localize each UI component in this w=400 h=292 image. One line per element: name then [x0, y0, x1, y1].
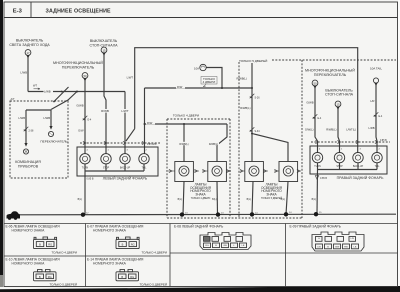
wire: right tail drop — [376, 84, 377, 153]
svg-text:ВЫКЛЮЧАТЕЛЬ: ВЫКЛЮЧАТЕЛЬ — [16, 38, 44, 42]
svg-text:RG: RG — [130, 275, 134, 279]
svg-text:S-34: S-34 — [255, 130, 261, 133]
wire: lamp D ground — [286, 182, 288, 215]
svg-text:RG: RG — [48, 275, 52, 279]
svg-text:17: 17 — [26, 51, 30, 55]
wire: reverse horizontal run — [28, 91, 125, 93]
connector slash S-26 — [250, 94, 255, 99]
ground dots on rail — [81, 213, 85, 217]
svg-text:E-08 ЛЕВЫЙ ЗАДНИЙ ФОНАРЬ: E-08 ЛЕВЫЙ ЗАДНИЙ ФОНАРЬ — [174, 224, 223, 228]
harness ticks right lamp — [315, 140, 318, 143]
left rear lamp assembly — [77, 147, 158, 176]
svg-text:R/W: R/W — [177, 85, 183, 89]
svg-text:50: 50 — [83, 74, 87, 78]
svg-text:BACK-UP: BACK-UP — [120, 166, 131, 169]
wire: lamp B drop — [217, 124, 227, 162]
svg-text:G/WB: G/WB — [76, 103, 83, 107]
svg-text:ТОЛЬКО 5 ДВЕРЕЙ: ТОЛЬКО 5 ДВЕРЕЙ — [49, 283, 77, 287]
junction dot: cluster branch — [76, 91, 78, 93]
junction dot: tail to 5-door feed — [251, 87, 253, 89]
svg-text:R/WB(L): R/WB(L) — [237, 76, 247, 80]
svg-text:L/B: L/B — [351, 238, 355, 240]
wire label L/WB on run — [44, 89, 54, 93]
svg-text:ТОЛЬКО 5 ДВЕРЕЙ: ТОЛЬКО 5 ДВЕРЕЙ — [139, 283, 167, 287]
svg-text:НОМЕРНОГО ЗНАКА: НОМЕРНОГО ЗНАКА — [93, 228, 127, 232]
svg-text:10A: 10A — [194, 66, 199, 70]
svg-text:0.85 B: 0.85 B — [380, 140, 387, 142]
dashed boundaries — [10, 60, 396, 218]
svg-text:B(L): B(L) — [247, 199, 252, 201]
wire: lamp C ground — [252, 182, 253, 215]
connector slash E-4 — [83, 116, 88, 121]
connector circle: stop lamp switch 15 — [101, 47, 107, 56]
svg-text:R/WB: R/WB — [101, 109, 109, 113]
wire: reverse switch drop — [27, 56, 29, 92]
arrow into cluster — [24, 143, 27, 147]
connector circle: multifunction switch 50 — [82, 73, 88, 82]
right section: multifunction switch 50 — [312, 80, 318, 89]
wire: left multifunction turn drop — [84, 79, 86, 154]
svg-text:E-4: E-4 — [88, 119, 92, 122]
wire: left tail drop — [144, 88, 146, 154]
svg-text:L/B: L/B — [317, 246, 321, 248]
svg-text:ЗНАКА: ЗНАКА — [195, 192, 206, 196]
svg-text:L/WB: L/WB — [44, 89, 51, 93]
svg-text:0.85 B: 0.85 B — [320, 177, 327, 180]
dashed harness line left — [80, 142, 160, 144]
svg-text:B: B — [39, 243, 41, 247]
connector E-10 — [34, 270, 57, 281]
svg-text:ТОЛЬКО 5 ДВЕРЕЙ: ТОЛЬКО 5 ДВЕРЕЙ — [261, 197, 282, 200]
wire: lamp B ground — [216, 182, 219, 215]
connector E-09 shell — [312, 232, 364, 251]
svg-text:B: B — [39, 275, 41, 279]
dashed box: 4-door licence lamps — [167, 119, 230, 218]
svg-text:ТОЛЬКО 4 ДВЕРИ: ТОЛЬКО 4 ДВЕРИ — [191, 198, 211, 200]
right rear lamp assembly — [310, 146, 387, 174]
svg-text:R/WB(L): R/WB(L) — [209, 143, 218, 146]
wire label R/WB — [101, 109, 111, 113]
svg-text:B(L): B(L) — [212, 199, 217, 201]
multifunction switch lever — [54, 87, 69, 102]
svg-text:НОМЕРНОГО ЗНАКА: НОМЕРНОГО ЗНАКА — [12, 261, 46, 265]
junction dot: lever contact — [61, 91, 63, 93]
svg-text:E-4: E-4 — [379, 115, 383, 118]
svg-text:ТОЛЬКО 5 ДВЕРЕЙ: ТОЛЬКО 5 ДВЕРЕЙ — [239, 59, 267, 63]
wire: left back-up bulb drop — [124, 92, 126, 155]
harness ticks left lamp — [83, 141, 86, 144]
svg-text:R/WB(L): R/WB(L) — [179, 143, 188, 146]
svg-text:4 ДВЕРИ: 4 ДВЕРИ — [203, 80, 216, 84]
svg-text:B(L): B(L) — [312, 199, 317, 201]
svg-text:G/WB: G/WB — [306, 101, 313, 105]
scan black bar left — [0, 0, 3, 280]
svg-text:ЗНАКА: ЗНАКА — [266, 192, 277, 196]
licence lamp A — [175, 162, 194, 182]
wire: right lamp internal bus — [318, 163, 378, 170]
ground rail — [16, 213, 396, 216]
wire: right stop drop — [338, 108, 340, 154]
svg-text:0.85 R/W: 0.85 R/W — [147, 144, 157, 146]
wire: lamp A ground — [183, 182, 184, 215]
connector slash S-34 — [250, 127, 255, 132]
table column lines — [85, 224, 87, 287]
svg-text:15: 15 — [336, 102, 340, 106]
wire label R/W on tail run — [176, 85, 185, 88]
wire labels on lamp feeds — [179, 142, 190, 145]
wire: left lamp ground drop — [84, 171, 86, 215]
svg-text:B: B — [122, 243, 124, 247]
svg-text:ЗАДНИЕЕ ОСВЕЩЕНИЕ: ЗАДНИЕЕ ОСВЕЩЕНИЕ — [46, 9, 112, 15]
svg-text:B: B — [121, 275, 123, 279]
svg-text:RG: RG — [205, 245, 209, 247]
ground connector triangle right lamp — [315, 176, 319, 180]
connector E-08 shell — [200, 233, 251, 250]
scan black bar bottom — [0, 286, 400, 292]
svg-text:BACK-UP: BACK-UP — [353, 165, 364, 168]
svg-text:ТОЛЬКО 4 ДВЕРИ: ТОЛЬКО 4 ДВЕРИ — [141, 250, 167, 254]
svg-text:TAIL: TAIL — [142, 166, 147, 169]
junction dot: lamp CD branch — [251, 133, 253, 135]
wire: licence lamp feed run — [145, 123, 228, 125]
fuse: tail 10A — [200, 64, 206, 70]
svg-text:НОМЕРНОГО ЗНАКА: НОМЕРНОГО ЗНАКА — [12, 228, 46, 232]
svg-text:НОМЕРНОГО ЗНАКА: НОМЕРНОГО ЗНАКА — [93, 261, 127, 265]
svg-text:L/WT: L/WT — [127, 76, 134, 80]
svg-text:ТОЛЬКО 4 ДВЕРИ: ТОЛЬКО 4 ДВЕРИ — [51, 250, 77, 254]
wire: 5-door licence feed — [251, 63, 253, 162]
table top line — [4, 223, 398, 225]
wire: branch into instrument cluster — [51, 92, 77, 110]
svg-text:L/WB: L/WB — [20, 70, 27, 74]
wire: back-up cross link top loop — [135, 48, 358, 153]
wire: lamp A drop — [183, 124, 185, 162]
svg-text:L/WT: L/WT — [121, 109, 128, 113]
svg-text:L/R: L/R — [370, 99, 374, 103]
svg-text:R/WB(L): R/WB(L) — [326, 128, 336, 132]
svg-text:G: G — [318, 238, 320, 240]
svg-text:L/WT(L): L/WT(L) — [346, 128, 356, 132]
wire: right multifunction turn drop — [315, 87, 318, 154]
svg-text:G/W(L): G/W(L) — [305, 128, 314, 132]
svg-text:RG: RG — [48, 243, 52, 247]
svg-text:STOP: STOP — [336, 166, 343, 168]
svg-text:WT: WT — [33, 84, 37, 88]
svg-text:СВЕТА ЗАДНЕГО ХОДА: СВЕТА ЗАДНЕГО ХОДА — [9, 43, 50, 47]
side stubs with chevrons lamps — [168, 170, 301, 172]
svg-text:ПЕРЕКЛЮЧАТЕЛЬ: ПЕРЕКЛЮЧАТЕЛЬ — [62, 66, 95, 70]
connector slash 2-38 — [24, 127, 29, 132]
dashed region: 5-door only — [167, 60, 396, 218]
svg-text:L/WB: L/WB — [18, 116, 25, 120]
svg-text:L/RB: L/RB — [369, 126, 375, 130]
svg-text:2-38: 2-38 — [29, 130, 34, 133]
licence lamp D — [279, 162, 298, 182]
connector E-06 — [34, 237, 57, 249]
svg-text:МНОГОФУНКЦИОНАЛЬНЫЙ: МНОГОФУНКЦИОНАЛЬНЫЙ — [53, 61, 103, 65]
svg-text:E-3: E-3 — [13, 9, 23, 15]
licence lamp C — [245, 162, 264, 182]
table row lines — [4, 255, 170, 257]
svg-text:S-26: S-26 — [255, 97, 261, 100]
wire: loop to node — [126, 129, 135, 141]
svg-text:E-4: E-4 — [318, 117, 322, 120]
connector circle: cluster back-up indicator — [23, 149, 28, 154]
svg-text:0.85 B: 0.85 B — [87, 178, 94, 181]
dashed box: instrument cluster A/T — [10, 101, 68, 178]
svg-text:E-09 ПРАВЫЙ ЗАДНИЙ ФОНАРЬ: E-09 ПРАВЫЙ ЗАДНИЙ ФОНАРЬ — [290, 224, 341, 228]
svg-text:L/WB: L/WB — [43, 116, 50, 120]
svg-text:B(L): B(L) — [281, 199, 286, 201]
svg-text:СТОП-СИГНАЛА: СТОП-СИГНАЛА — [325, 93, 354, 97]
svg-text:B(L): B(L) — [178, 199, 183, 201]
connector circle: reverse light switch 17 — [25, 50, 31, 59]
svg-text:B(L): B(L) — [78, 199, 83, 201]
junction dot: tail branch — [144, 123, 146, 125]
svg-text:50: 50 — [313, 81, 317, 85]
car icon — [7, 211, 21, 218]
svg-text:СТОП-СИГНАЛА: СТОП-СИГНАЛА — [89, 44, 118, 48]
svg-text:A/T: A/T — [11, 97, 15, 101]
wire: left stop switch drop — [104, 54, 106, 155]
wire: cluster bus — [26, 110, 51, 143]
svg-text:ТОЛЬКО 4 ДВЕРИ: ТОЛЬКО 4 ДВЕРИ — [173, 114, 199, 118]
svg-text:15: 15 — [102, 48, 106, 52]
junction dot: lamp A branch — [183, 123, 185, 125]
dashed harness line right — [311, 141, 390, 143]
wire: left lamp internal bus — [85, 164, 144, 171]
wire label R/W on licence run — [146, 121, 155, 124]
connector E-14 — [116, 270, 139, 281]
svg-text:TURN: TURN — [82, 167, 89, 169]
wire: right lamp ground drop — [316, 170, 319, 215]
svg-text:ПРИБОРОВ: ПРИБОРОВ — [18, 164, 39, 168]
header bar — [4, 17, 398, 19]
svg-text:ВЫКЛЮЧАТЕЛЬ: ВЫКЛЮЧАТЕЛЬ — [90, 39, 118, 43]
svg-text:10A TAIL: 10A TAIL — [370, 66, 382, 70]
svg-text:TAIL: TAIL — [375, 165, 380, 168]
svg-text:G/W: G/W — [78, 128, 84, 132]
right section: stop lamp switch 15 — [335, 101, 341, 110]
wire label L/WT — [120, 109, 130, 113]
connector circle: switch in cluster — [48, 131, 53, 136]
connector E-07 — [116, 237, 139, 249]
svg-text:ЛЕВЫЙ ЗАДНИЙ ФОНАРЬ: ЛЕВЫЙ ЗАДНИЙ ФОНАРЬ — [103, 177, 148, 181]
svg-text:ПРАВЫЙ ЗАДНИЙ ФОНАРЬ: ПРАВЫЙ ЗАДНИЙ ФОНАРЬ — [337, 176, 385, 180]
svg-text:R/W: R/W — [147, 121, 153, 125]
svg-text:ПЕРЕКЛЮЧАТЕЛЬ: ПЕРЕКЛЮЧАТЕЛЬ — [40, 140, 67, 144]
wire: lamp D diagonal feed — [252, 134, 288, 162]
svg-text:R/WB(L): R/WB(L) — [240, 106, 250, 110]
licence lamp B — [208, 162, 227, 182]
svg-text:TURN: TURN — [314, 166, 321, 168]
wire: fuse to tail feed — [206, 68, 222, 89]
svg-text:ПЕРЕКЛЮЧАТЕЛЬ: ПЕРЕКЛЮЧАТЕЛЬ — [314, 73, 347, 77]
svg-text:RG: RG — [131, 243, 135, 247]
arrow into switch — [49, 126, 52, 130]
wire: tail horizontal run — [145, 87, 253, 89]
svg-text:STOP: STOP — [103, 167, 110, 169]
label box: 4-door only near fuse — [201, 77, 217, 85]
junction dot: fuse node — [221, 87, 223, 89]
